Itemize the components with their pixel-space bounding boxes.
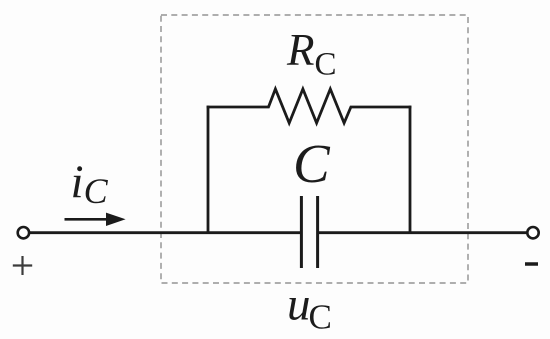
polarity plus sign at left terminal [13, 256, 32, 275]
current arrow for iC [65, 213, 126, 226]
wire (left main wire from terminal to capacitor left plate) [29, 231, 302, 234]
resistor RC (zigzag with lead wires in upper branch) [207, 89, 412, 123]
capacitor C (left plate) [300, 196, 303, 268]
wire (left vertical branch, junction with main wire at node left) [207, 106, 210, 234]
wire (right vertical branch, junction with main wire at node right) [409, 106, 412, 234]
terminal T2 (right open-circle terminal) [527, 227, 538, 238]
svg-text:C: C [293, 133, 331, 194]
dashed enclosure box (two-terminal RC network boundary) [161, 15, 468, 283]
polarity minus sign at right terminal [525, 262, 538, 266]
wire (right main wire from capacitor right plate to terminal) [318, 231, 528, 234]
terminal T1 (left open-circle terminal) [18, 227, 29, 238]
capacitor C (right plate) [316, 196, 319, 268]
